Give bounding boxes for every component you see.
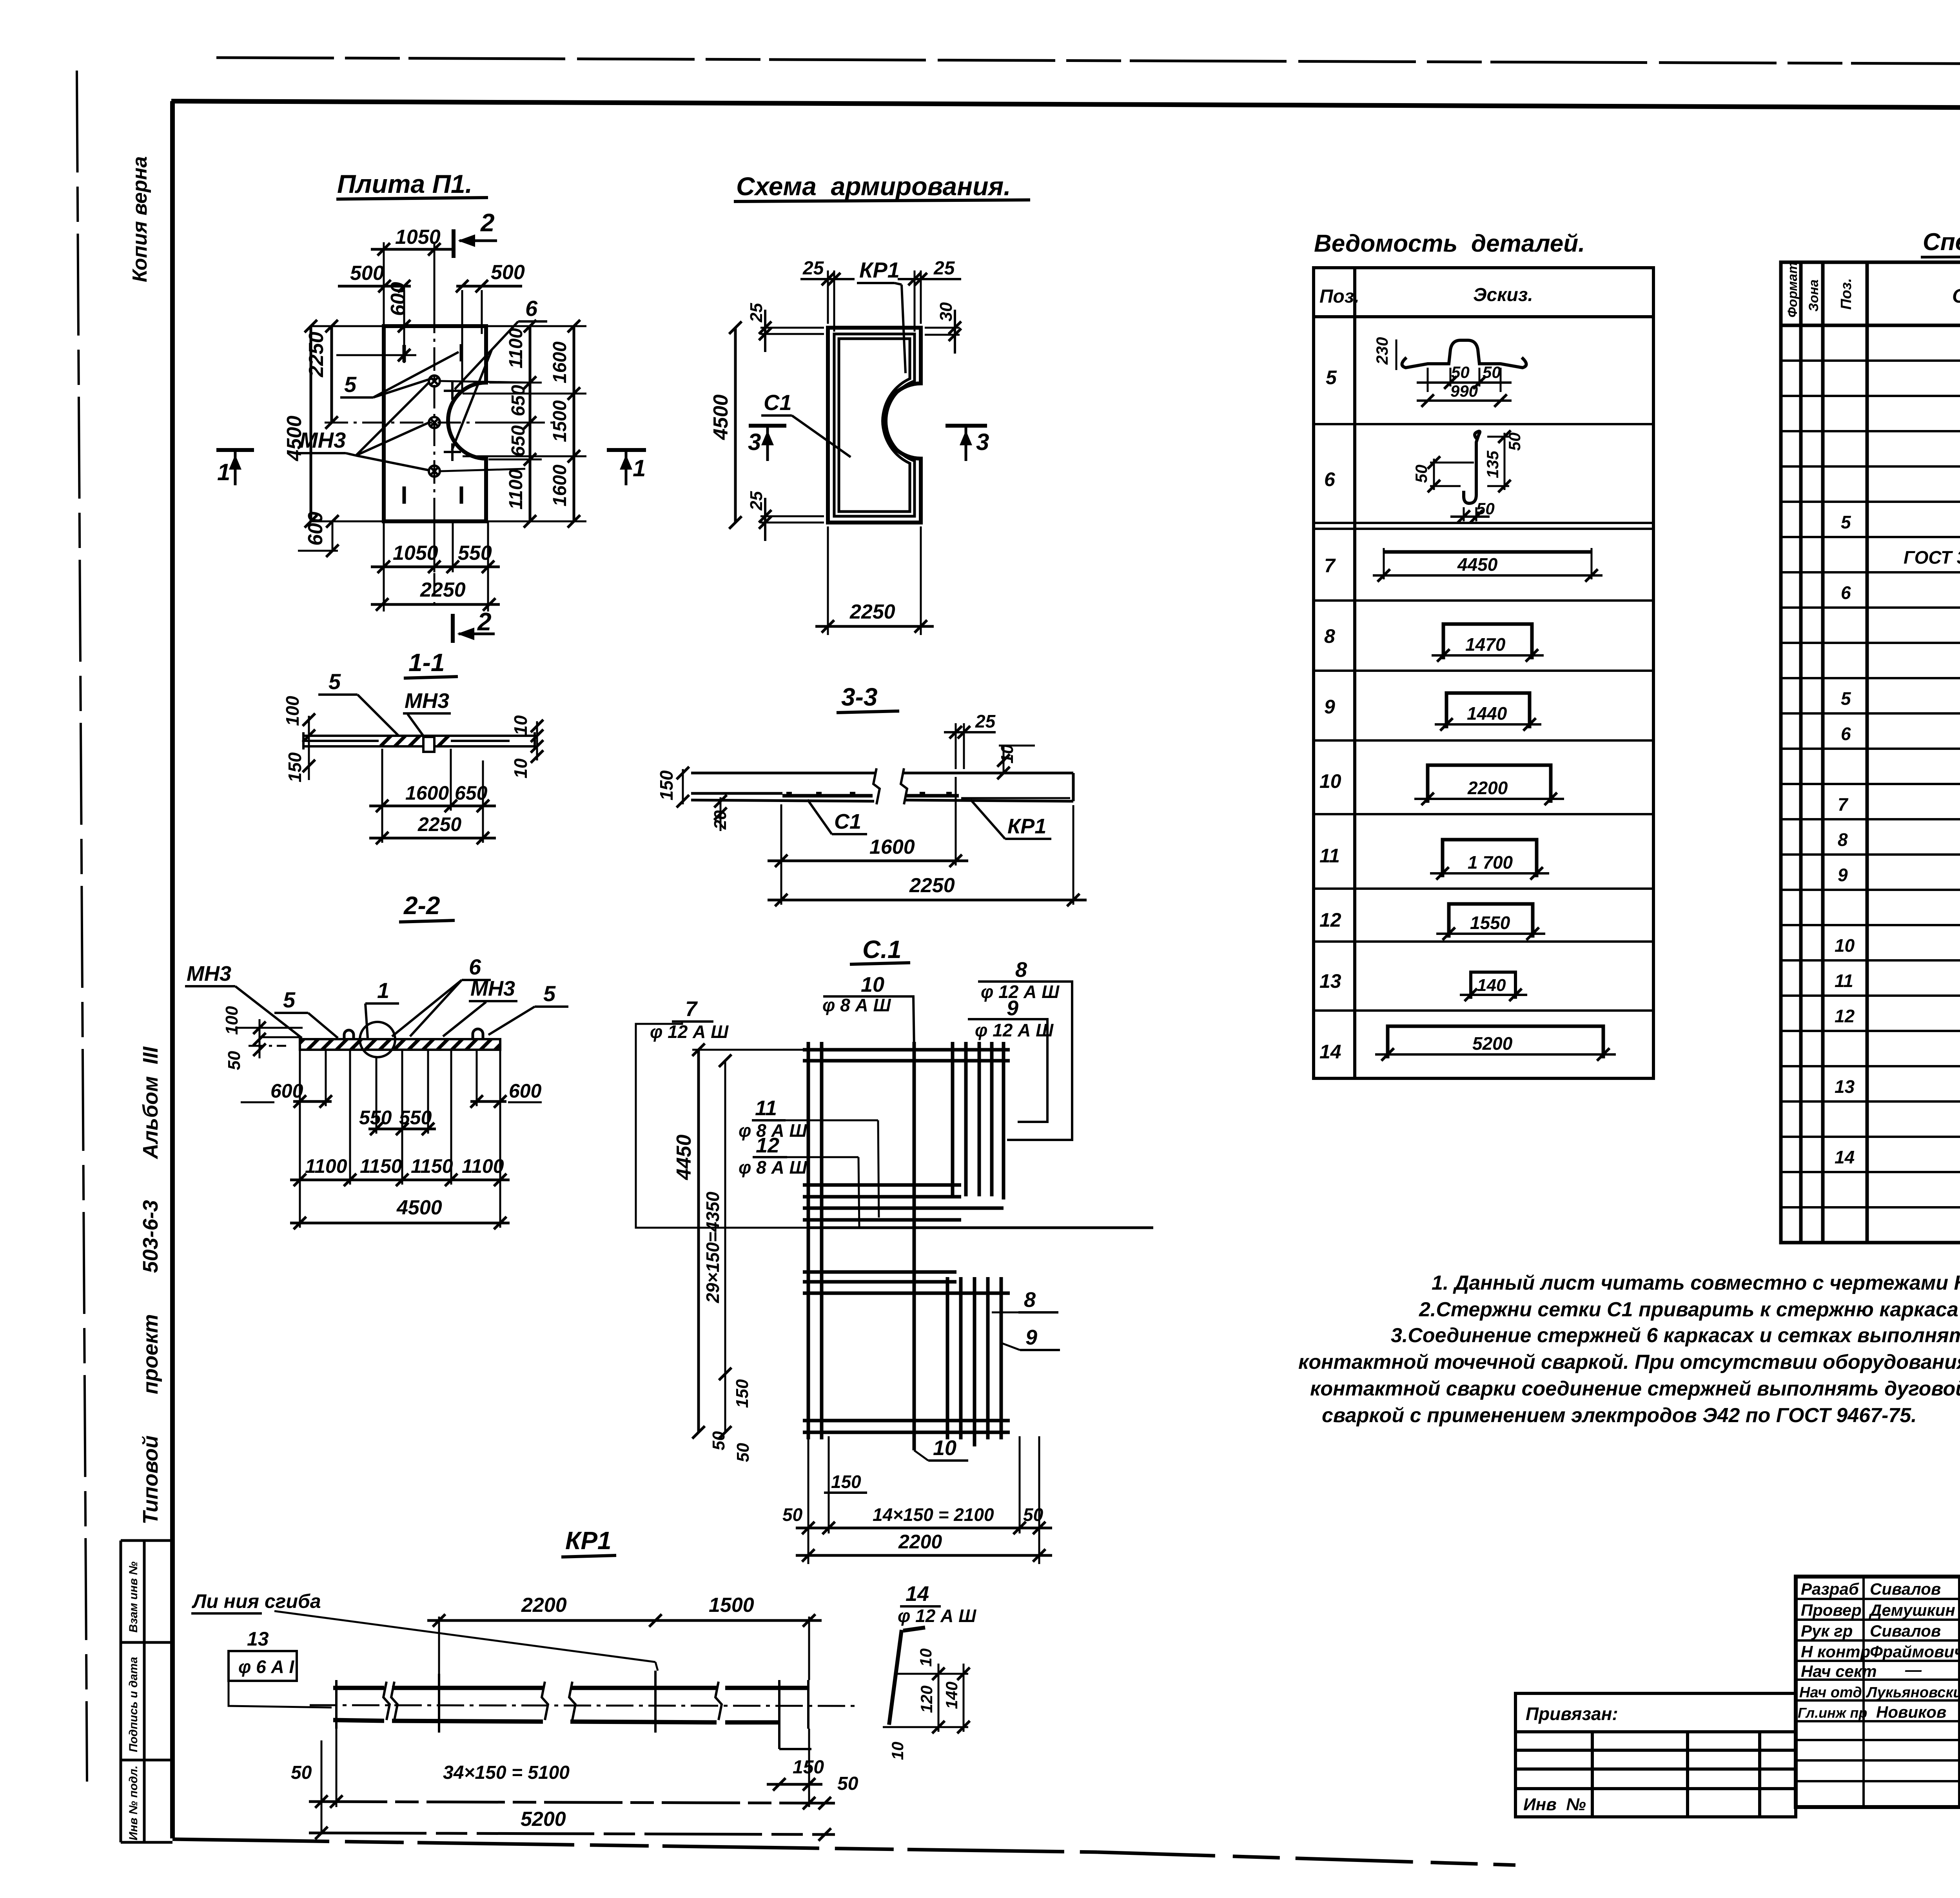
svg-text:КР1: КР1	[1007, 815, 1046, 838]
svg-text:550: 550	[458, 542, 492, 564]
drawing frame bottom (dashed scan)	[172, 1839, 1098, 1852]
svg-text:φ 12 А Ш: φ 12 А Ш	[975, 1020, 1054, 1040]
dim 600 left (s2-2)	[293, 1100, 332, 1103]
svg-text:7: 7	[685, 997, 698, 1021]
svg-text:20: 20	[711, 810, 730, 830]
svg-text:500: 500	[350, 262, 384, 285]
svg-text:600: 600	[304, 512, 327, 546]
svg-text:КР1: КР1	[859, 258, 900, 282]
svg-text:Сивалов: Сивалов	[1870, 1622, 1941, 1640]
svg-text:7: 7	[1838, 794, 1849, 815]
vertical centerline of plate (dash-dot)	[434, 310, 436, 607]
svg-text:Инв №: Инв №	[1523, 1795, 1586, 1814]
svg-text:230: 230	[1373, 337, 1391, 365]
dim 25 left rotated	[760, 310, 824, 352]
svg-text:Фраймович: Фраймович	[1870, 1642, 1960, 1661]
svg-text:140: 140	[1477, 976, 1506, 995]
detail 14 bar	[903, 1628, 925, 1631]
svg-text:50: 50	[225, 1051, 244, 1070]
svg-text:11: 11	[1319, 845, 1340, 867]
slab section 1-1 top and bottom lines	[303, 732, 535, 749]
svg-text:1600: 1600	[550, 341, 570, 383]
specification table grid	[1781, 262, 1960, 1243]
svg-text:8: 8	[1024, 1288, 1036, 1312]
svg-text:Ли ния сгиба: Ли ния сгиба	[192, 1590, 321, 1612]
dim 150 left (s3-3)	[682, 769, 684, 804]
svg-text:29×150=4350: 29×150=4350	[702, 1192, 723, 1303]
svg-text:Зона: Зона	[1806, 279, 1821, 312]
svg-text:500: 500	[491, 261, 525, 284]
svg-text:11: 11	[755, 1096, 777, 1120]
dim 500 top right	[456, 286, 522, 392]
svg-text:120: 120	[917, 1686, 936, 1713]
dim 25 top left gap	[800, 270, 855, 332]
svg-text:С.1: С.1	[862, 935, 902, 964]
svg-text:990: 990	[1450, 382, 1478, 400]
svg-text:φ 8 А Ш: φ 8 А Ш	[822, 995, 891, 1015]
dim 600 lower left (vertical)	[332, 521, 334, 552]
dim 4500 left vertical	[310, 326, 312, 521]
left adjacent lines (s2-2)	[235, 1028, 303, 1046]
svg-text:1100: 1100	[462, 1155, 504, 1177]
detail 14 dims	[883, 1664, 968, 1732]
svg-text:3-3: 3-3	[841, 683, 878, 711]
dim 2200 (КР1)	[427, 1619, 668, 1622]
dim 1500 (КР1)	[668, 1619, 822, 1622]
lifting loop МН2 top	[429, 376, 440, 386]
sketch poz 10 (U bar 2200)	[1428, 765, 1551, 803]
drawing frame left	[170, 101, 175, 1838]
svg-text:2250: 2250	[420, 579, 466, 601]
svg-text:14×150 = 2100: 14×150 = 2100	[873, 1504, 994, 1525]
svg-text:2200: 2200	[521, 1594, 567, 1617]
lifting loop МН2 middle	[429, 417, 440, 428]
dim row 1100/1150/1150/1100 (s2-2)	[290, 1179, 510, 1181]
svg-text:5: 5	[283, 987, 296, 1012]
svg-text:φ 12 А Ш: φ 12 А Ш	[981, 982, 1060, 1002]
svg-text:1: 1	[633, 455, 646, 481]
МН4 cross mark upper	[444, 382, 461, 400]
svg-text:Рук гр: Рук гр	[1801, 1622, 1853, 1640]
bar tick marks inside plate	[404, 344, 461, 504]
extension lines below mesh	[808, 1436, 1039, 1564]
section mark 2 bottom	[451, 614, 455, 643]
dim 10 (s3-3)	[1003, 745, 1005, 774]
svg-text:1440: 1440	[1467, 703, 1507, 724]
sketch poz 7 (straight bar 4450)	[1383, 550, 1592, 554]
notes text block	[1298, 1272, 1960, 1427]
svg-text:4500: 4500	[283, 416, 306, 461]
dim 10 right upper (s1-1)	[531, 720, 543, 732]
svg-text:Разраб: Разраб	[1801, 1580, 1859, 1598]
dim 50 | 14x150=2100 | 50	[796, 1527, 1052, 1530]
svg-text:Обозначение: Обозначение	[1952, 285, 1960, 307]
dim 25 top right gap	[898, 270, 961, 332]
svg-text:Плита П1.: Плита П1.	[337, 169, 472, 198]
svg-text:5200: 5200	[521, 1808, 566, 1831]
svg-text:600: 600	[509, 1080, 542, 1102]
svg-text:Н контр: Н контр	[1801, 1642, 1870, 1661]
svg-text:2200: 2200	[898, 1531, 942, 1553]
svg-text:50: 50	[733, 1443, 753, 1462]
svg-text:6: 6	[1324, 468, 1336, 490]
svg-text:135: 135	[1483, 450, 1502, 478]
dim 20 left (s3-3)	[714, 795, 727, 807]
svg-text:10: 10	[510, 715, 531, 735]
КР1 frame inner double contour	[834, 334, 915, 516]
dim 29x150=4350 rotated	[724, 1061, 726, 1432]
dim 1050 top	[371, 242, 455, 336]
title block outline	[1796, 1577, 1960, 1807]
svg-text:Копия верна: Копия верна	[129, 156, 151, 282]
svg-text:1100: 1100	[305, 1155, 347, 1177]
svg-text:φ 8 А Ш: φ 8 А Ш	[739, 1157, 808, 1178]
mesh С1 vertical bars	[808, 1042, 1004, 1450]
svg-text:Ведомость деталей.: Ведомость деталей.	[1314, 230, 1585, 257]
svg-text:Сивалов: Сивалов	[1870, 1580, 1941, 1598]
svg-text:Инв № подл.: Инв № подл.	[127, 1766, 140, 1840]
svg-text:150: 150	[656, 770, 677, 800]
svg-text:2200: 2200	[1467, 778, 1508, 798]
dim ticks 100/50 left (s2-2)	[259, 1019, 261, 1058]
svg-text:25: 25	[747, 303, 766, 323]
slab section 3-3 left part	[691, 768, 1073, 804]
svg-text:МН3: МН3	[187, 962, 231, 985]
svg-text:4500: 4500	[396, 1196, 442, 1219]
svg-text:10: 10	[888, 1742, 907, 1760]
svg-text:1600: 1600	[869, 836, 915, 858]
svg-text:2-2: 2-2	[403, 891, 440, 920]
svg-text:14: 14	[1319, 1041, 1341, 1063]
signature table labels	[1798, 1580, 1960, 1721]
dim 600 upper left (vertical)	[336, 354, 416, 356]
svg-text:контактной сварки соединение с: контактной сварки соединение стержней вы…	[1310, 1377, 1960, 1400]
svg-text:1. Данный лист читать совместн: 1. Данный лист читать совместно с чертеж…	[1432, 1272, 1960, 1294]
svg-text:φ 6 А I: φ 6 А I	[238, 1657, 295, 1677]
svg-text:1600: 1600	[550, 465, 570, 506]
spec rows text	[1835, 336, 1960, 1239]
sketch poz 12 (U bar 1550)	[1449, 904, 1533, 938]
dim 2200 bottom mesh	[796, 1554, 1052, 1557]
svg-text:10: 10	[861, 973, 884, 996]
svg-text:50: 50	[1505, 432, 1524, 451]
extension lines below slab (s2-2)	[300, 1050, 500, 1228]
svg-text:6: 6	[1841, 724, 1851, 744]
sketch poz 5 (МН2 loop profile)	[1402, 340, 1526, 368]
slab section 2-2 with hatch	[300, 1039, 500, 1050]
svg-text:50: 50	[291, 1762, 312, 1783]
svg-text:1100: 1100	[506, 469, 526, 510]
svg-text:8: 8	[1015, 958, 1027, 982]
svg-text:12: 12	[756, 1134, 779, 1157]
svg-text:9: 9	[1838, 865, 1848, 885]
svg-text:3: 3	[748, 429, 761, 455]
dim 2250 bottom	[371, 603, 500, 606]
svg-text:КР1: КР1	[565, 1526, 612, 1555]
dim 4500 schema left	[734, 328, 737, 523]
svg-text:50: 50	[1412, 465, 1430, 483]
svg-text:сваркой с применением электрод: сваркой с применением электродов Э42 по …	[1322, 1404, 1917, 1427]
svg-text:3.Соединение стержней 6 каркас: 3.Соединение стержней 6 каркасах и сетка…	[1391, 1324, 1960, 1347]
dim 25 (s3-3)	[944, 723, 996, 769]
svg-text:25: 25	[802, 258, 824, 279]
svg-text:2: 2	[480, 209, 495, 237]
dim 2250 (s1-1)	[369, 837, 496, 840]
svg-text:МН3: МН3	[299, 428, 346, 452]
svg-text:150: 150	[733, 1379, 752, 1408]
svg-text:11: 11	[1835, 971, 1853, 991]
dim 600 right (s2-2)	[470, 1100, 506, 1103]
КР1 centerline dash-dot	[310, 1705, 856, 1706]
svg-text:4450: 4450	[673, 1134, 695, 1180]
svg-text:550: 550	[359, 1107, 392, 1129]
sketch poz 9 (U bar 1440)	[1446, 693, 1530, 728]
svg-text:650: 650	[508, 385, 529, 416]
right extension lines	[441, 326, 586, 521]
svg-text:1500: 1500	[709, 1594, 754, 1617]
section mark 1 left	[216, 448, 254, 452]
svg-text:13: 13	[1319, 970, 1341, 992]
svg-text:34×150 = 5100: 34×150 = 5100	[443, 1762, 570, 1783]
svg-text:контактной точечной сваркой. П: контактной точечной сваркой. При отсутст…	[1298, 1351, 1960, 1374]
svg-text:ГОСТ 3262-75: ГОСТ 3262-75	[1904, 547, 1960, 568]
sketch poz 13 (small bar 140)	[1471, 972, 1515, 999]
dim column 1600/1500/1600 far right	[573, 326, 575, 521]
svg-text:150: 150	[285, 752, 305, 782]
svg-text:5200: 5200	[1472, 1033, 1513, 1054]
svg-text:12: 12	[1319, 909, 1341, 931]
svg-text:5: 5	[328, 669, 341, 694]
dim 550 550 (s2-2)	[368, 1128, 436, 1130]
svg-text:2250: 2250	[305, 332, 328, 377]
svg-text:550: 550	[399, 1107, 432, 1129]
svg-text:2250: 2250	[417, 813, 461, 835]
svg-text:5: 5	[1841, 512, 1851, 532]
section mark 3 right	[946, 424, 987, 428]
svg-text:9: 9	[1025, 1326, 1037, 1349]
svg-text:С1: С1	[764, 390, 792, 415]
sketch poz 6 (hook bar)	[1464, 431, 1480, 503]
svg-text:Подпись и дата: Подпись и дата	[127, 1657, 140, 1752]
drawing frame top	[171, 101, 1960, 110]
svg-text:6: 6	[525, 296, 538, 321]
svg-text:1 700: 1 700	[1468, 852, 1513, 873]
svg-text:3: 3	[976, 429, 989, 455]
dim 25 bottom left rotated	[760, 498, 824, 541]
svg-text:Поз.: Поз.	[1838, 278, 1855, 310]
svg-text:10: 10	[933, 1436, 956, 1460]
dim 2250 (s3-3)	[1073, 805, 1074, 905]
plate П1 outline with notch	[384, 326, 486, 521]
svg-text:1500: 1500	[550, 400, 570, 442]
dim 10 right lower (s1-1)	[531, 740, 543, 753]
dim 1050/550 bottom	[371, 566, 500, 568]
svg-text:50: 50	[1451, 363, 1470, 381]
svg-text:Нач сект: Нач сект	[1801, 1662, 1877, 1680]
dim 500 top left	[338, 286, 411, 363]
lifting loop bump left (s2-2)	[344, 1030, 354, 1039]
section mark 2 top	[452, 229, 456, 258]
sketch poz 8 (U bar 1470)	[1443, 624, 1532, 659]
dim 4450 left of mesh	[697, 1050, 700, 1432]
svg-text:14: 14	[1835, 1147, 1855, 1167]
hatched band section 1-1	[379, 736, 450, 746]
svg-text:Нач отд: Нач отд	[1799, 1684, 1862, 1701]
svg-text:8: 8	[1838, 829, 1848, 850]
svg-text:МН3: МН3	[470, 977, 515, 1000]
svg-text:Новиков: Новиков	[1876, 1703, 1946, 1721]
МН4 cross mark lower	[444, 443, 461, 461]
svg-text:2250: 2250	[909, 874, 955, 897]
svg-text:10: 10	[916, 1648, 935, 1667]
КР1 verticals and break marks	[336, 1671, 811, 1749]
svg-text:2: 2	[477, 608, 492, 636]
svg-text:Лукьяновский: Лукьяновский	[1866, 1684, 1960, 1701]
svg-text:14: 14	[906, 1582, 929, 1606]
svg-text:Привязан:: Привязан:	[1526, 1704, 1618, 1724]
svg-text:Формат: Формат	[1785, 262, 1800, 318]
svg-text:4500: 4500	[710, 394, 732, 440]
svg-text:1: 1	[377, 978, 389, 1003]
svg-text:1100: 1100	[506, 328, 526, 368]
svg-text:50: 50	[1023, 1504, 1044, 1525]
svg-text:2.Стержни сетки С1 приварить к: 2.Стержни сетки С1 приварить к стержню к…	[1419, 1298, 1960, 1321]
svg-text:13: 13	[247, 1628, 269, 1650]
lifting loop bump right (s2-2)	[473, 1029, 483, 1039]
svg-text:Демушкин: Демушкин	[1869, 1601, 1955, 1619]
svg-text:600: 600	[387, 282, 410, 316]
signature table grid	[1796, 1577, 1960, 1807]
svg-text:12: 12	[1835, 1006, 1855, 1026]
svg-text:1600: 1600	[405, 782, 449, 804]
svg-text:Взам инв №: Взам инв №	[127, 1562, 140, 1633]
svg-text:1-1: 1-1	[408, 648, 445, 677]
margin table	[121, 1541, 172, 1842]
svg-text:100: 100	[282, 696, 303, 726]
dim 4500 (s2-2)	[290, 1222, 510, 1225]
svg-text:50: 50	[1483, 363, 1501, 381]
svg-text:5: 5	[344, 372, 357, 397]
svg-text:5: 5	[1326, 367, 1337, 388]
svg-text:13: 13	[1835, 1076, 1855, 1097]
svg-text:6: 6	[469, 954, 481, 979]
КР1 top chord	[333, 1686, 808, 1690]
svg-text:25: 25	[933, 258, 955, 279]
svg-text:50: 50	[782, 1504, 803, 1525]
dim 2250 schema bottom	[828, 526, 921, 635]
Привязан block	[1515, 1693, 1796, 1817]
dim 2250 left vertical	[330, 326, 333, 423]
sketch poz 14 (long bar 5200)	[1388, 1026, 1603, 1058]
bottom extension lines	[384, 521, 488, 611]
svg-text:9: 9	[1324, 696, 1335, 718]
МН3 tube block in joint	[423, 737, 434, 752]
svg-text:50: 50	[1476, 499, 1495, 518]
horizontal centerline of plate (dash-dot)	[325, 422, 554, 424]
svg-text:Гл.инж пр: Гл.инж пр	[1798, 1705, 1867, 1721]
svg-text:Спецификация плиты П.: Спецификация плиты П.	[1923, 229, 1960, 256]
svg-text:φ 12 А Ш: φ 12 А Ш	[898, 1606, 976, 1626]
svg-text:6: 6	[1841, 582, 1851, 603]
svg-text:25: 25	[975, 711, 996, 731]
svg-text:10: 10	[1319, 770, 1341, 792]
svg-text:1470: 1470	[1465, 634, 1506, 655]
svg-text:140: 140	[942, 1682, 961, 1709]
svg-text:5: 5	[543, 981, 556, 1006]
svg-text:150: 150	[831, 1472, 861, 1492]
svg-text:100: 100	[222, 1006, 241, 1035]
svg-text:1150: 1150	[411, 1155, 453, 1177]
svg-text:1550: 1550	[1470, 913, 1510, 933]
svg-text:600: 600	[270, 1080, 303, 1102]
extension line top edge to left dims	[310, 325, 384, 327]
rebar dots section 3-3	[786, 792, 952, 797]
dim 100 left (s1-1)	[303, 713, 315, 726]
parts table grid	[1314, 268, 1653, 1078]
svg-text:С1: С1	[834, 810, 861, 833]
svg-text:650: 650	[455, 782, 488, 804]
svg-text:1150: 1150	[360, 1155, 402, 1177]
svg-text:10: 10	[998, 744, 1017, 764]
svg-text:8: 8	[1324, 625, 1335, 647]
svg-text:1: 1	[217, 459, 230, 485]
svg-text:10: 10	[1835, 935, 1855, 956]
svg-text:1050: 1050	[393, 542, 438, 564]
svg-text:φ 12 А Ш: φ 12 А Ш	[650, 1022, 729, 1042]
svg-text:Поз.: Поз.	[1319, 286, 1359, 307]
section mark 3 left	[749, 424, 786, 428]
outer sheet border left (dashed)	[77, 71, 87, 1782]
svg-text:1050: 1050	[395, 226, 441, 249]
svg-text:50: 50	[709, 1431, 728, 1450]
svg-text:7: 7	[1324, 555, 1336, 577]
svg-text:50: 50	[837, 1773, 858, 1794]
mesh С1 horizontal bars	[803, 1050, 1153, 1432]
outer sheet border top (dashed)	[216, 58, 1960, 66]
svg-text:10: 10	[510, 758, 531, 778]
svg-text:—: —	[1905, 1660, 1922, 1679]
reinforced plate outline (schema)	[828, 328, 921, 523]
dim 5200 (КР1)	[309, 1833, 835, 1834]
svg-text:4450: 4450	[1457, 554, 1498, 575]
dim 150 left (s1-1)	[303, 760, 315, 772]
svg-text:Провер: Провер	[1801, 1601, 1862, 1619]
lifting loop МН2 bottom	[429, 466, 440, 477]
КР1 bottom chord	[333, 1720, 779, 1722]
svg-text:30: 30	[936, 302, 956, 321]
svg-text:Схема армирования.: Схема армирования.	[736, 172, 1011, 201]
dim 1600 (s3-3)	[781, 777, 956, 905]
svg-text:9: 9	[1007, 996, 1018, 1020]
section mark 1 right	[607, 448, 646, 452]
dim 1600/650 (s1-1)	[382, 749, 483, 843]
dim 30 right rotated	[925, 310, 960, 354]
svg-text:25: 25	[747, 491, 766, 511]
svg-text:Типовой проект 503: Типовой проект 503-6-3 Альбом III	[139, 1046, 162, 1524]
detail circle МН3 node (s2-2)	[360, 1022, 395, 1057]
svg-text:МН3: МН3	[405, 689, 449, 713]
svg-text:5: 5	[1841, 688, 1851, 709]
dim column 1100/650/650/1100 right	[529, 326, 532, 521]
svg-text:2250: 2250	[849, 601, 895, 623]
svg-text:Эскиз.: Эскиз.	[1473, 285, 1533, 305]
sketch poz 11 (U bar 1700)	[1443, 840, 1537, 877]
svg-text:650: 650	[508, 425, 529, 457]
